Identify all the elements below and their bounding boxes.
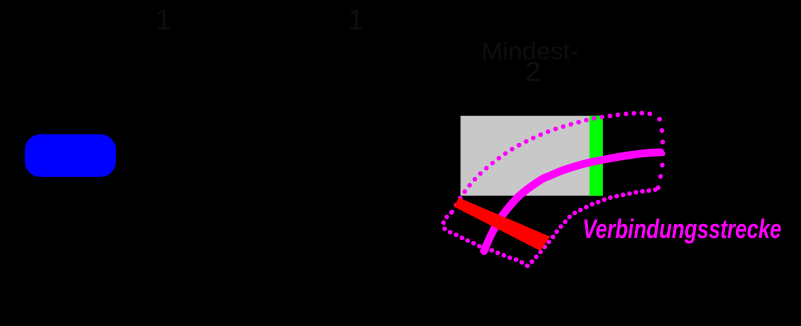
red crossing segment xyxy=(454,198,550,251)
green bar xyxy=(590,116,603,196)
magenta dotted corridor outline: inner edge and left end cap xyxy=(443,188,658,265)
blue pill xyxy=(25,134,116,177)
svg-text:Verbindungsstrecke: Verbindungsstrecke xyxy=(583,214,782,244)
svg-text:1: 1 xyxy=(155,5,171,37)
svg-text:2: 2 xyxy=(525,56,541,87)
magenta dotted corridor outline: outer edge xyxy=(452,113,657,212)
gray rectangle xyxy=(461,116,603,196)
connecting curve (Verbindungsstrecke) xyxy=(484,152,661,251)
magenta dotted corridor outline: right end cap xyxy=(657,115,663,188)
svg-text:1: 1 xyxy=(348,5,364,37)
